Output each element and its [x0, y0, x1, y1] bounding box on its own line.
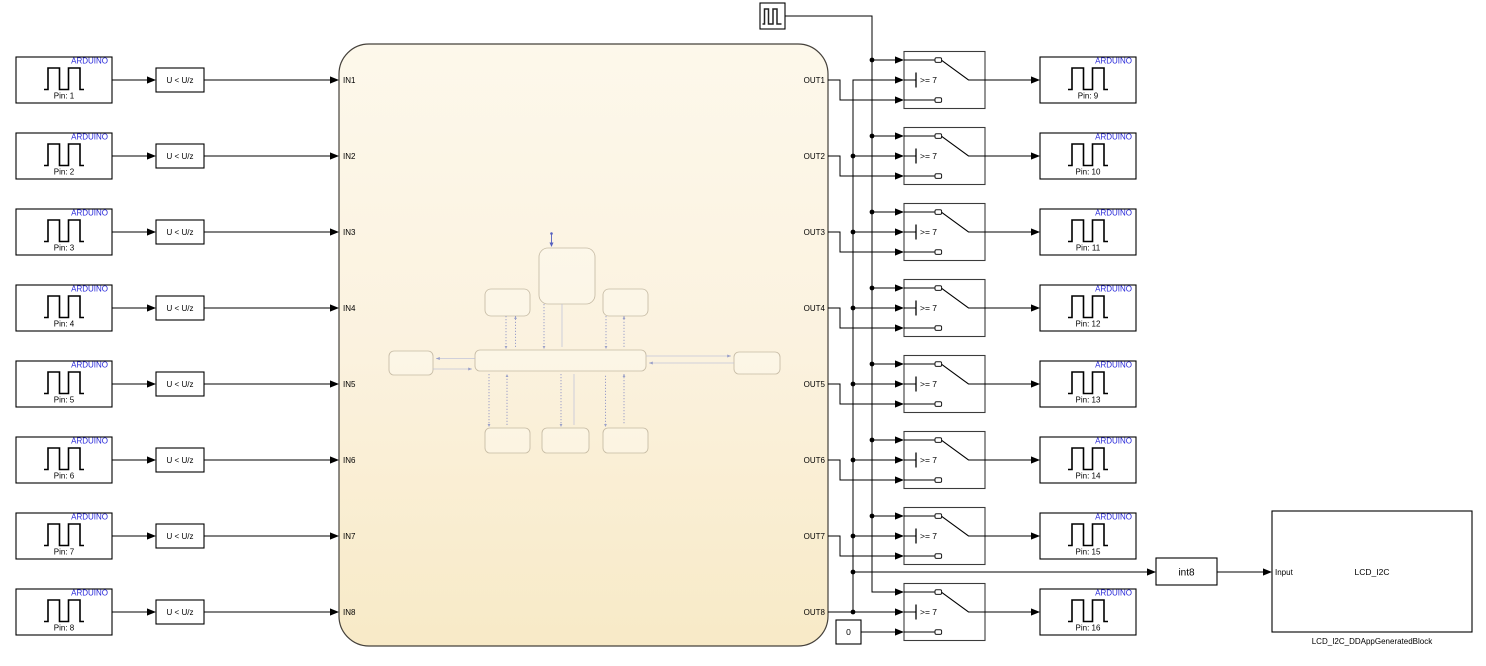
digital output block Pin 13 (ARDUINO sink): [1040, 361, 1136, 408]
svg-text:Pin: 13: Pin: 13: [1076, 396, 1101, 405]
svg-text:IN1: IN1: [343, 76, 356, 85]
svg-text:U < U/z: U < U/z: [167, 76, 194, 85]
wire Pin1 to compare block: [112, 76, 156, 83]
wire control trunk branch to switch 7 middle input: [853, 532, 904, 539]
svg-text:OUT2: OUT2: [804, 152, 826, 161]
svg-text:ARDUINO: ARDUINO: [1095, 361, 1132, 370]
wire subsystem OUT4 to switch 4 bottom input: [828, 308, 904, 332]
svg-text:>= 7: >= 7: [920, 531, 937, 541]
svg-text:OUT5: OUT5: [804, 380, 826, 389]
pulse generator block Pin 2 (ARDUINO source): [16, 133, 112, 180]
subsystem chart block: [339, 44, 828, 646]
switch block 2 (criteria >= 7): [904, 128, 985, 185]
subsystem input port label IN2: [343, 152, 356, 161]
svg-text:U < U/z: U < U/z: [167, 304, 194, 313]
wire control trunk branch to switch 5 middle input: [853, 380, 904, 387]
svg-text:U < U/z: U < U/z: [167, 456, 194, 465]
wire Pin7 to compare block: [112, 532, 156, 539]
svg-text:IN4: IN4: [343, 304, 356, 313]
wire switch 6 to Pin 14 block: [985, 456, 1040, 463]
svg-text:ARDUINO: ARDUINO: [1095, 133, 1132, 142]
wire pulse trunk branch to switch 5 top input: [872, 360, 904, 367]
constant block 0: [836, 620, 861, 644]
wire subsystem OUT1 to switch 1 bottom input: [828, 80, 904, 104]
svg-text:>= 7: >= 7: [920, 455, 937, 465]
svg-text:U < U/z: U < U/z: [167, 608, 194, 617]
switch block 6 (criteria >= 7): [904, 432, 985, 489]
svg-text:Pin: 15: Pin: 15: [1076, 548, 1101, 557]
wire pulse trunk branch to switch 2 top input: [872, 132, 904, 139]
compare-to-zero block U&lt;U/z row 8: [156, 600, 204, 624]
wire subsystem OUT7 to switch 7 bottom input: [828, 536, 904, 560]
svg-text:U < U/z: U < U/z: [167, 380, 194, 389]
wire switch 5 to Pin 13 block: [985, 380, 1040, 387]
subsystem input port label IN3: [343, 228, 356, 237]
svg-text:U < U/z: U < U/z: [167, 152, 194, 161]
wire pulse trunk branch to switch 4 top input: [872, 284, 904, 291]
svg-text:0: 0: [846, 627, 851, 637]
svg-text:int8: int8: [1178, 568, 1195, 579]
wire control trunk branch to switch 3 middle input: [853, 228, 904, 235]
svg-text:ARDUINO: ARDUINO: [71, 361, 108, 370]
svg-text:ARDUINO: ARDUINO: [71, 133, 108, 142]
svg-text:OUT3: OUT3: [804, 228, 826, 237]
compare-to-zero block U&lt;U/z row 5: [156, 372, 204, 396]
subsystem output port label OUT5: [804, 380, 826, 389]
junction pulse trunk row 3: [870, 210, 875, 215]
wire control trunk branch to switch 4 middle input: [853, 304, 904, 311]
switch block 1 (criteria >= 7): [904, 52, 985, 109]
svg-text:Pin: 3: Pin: 3: [54, 244, 75, 253]
junction control trunk row 2: [851, 154, 856, 159]
pulse generator block Pin 1 (ARDUINO source): [16, 57, 112, 104]
svg-text:ARDUINO: ARDUINO: [1095, 285, 1132, 294]
wire Pin3 to compare block: [112, 228, 156, 235]
digital output block Pin 11 (ARDUINO sink): [1040, 209, 1136, 256]
svg-text:Pin: 14: Pin: 14: [1076, 472, 1101, 481]
switch block 5 (criteria >= 7): [904, 356, 985, 413]
compare-to-zero block U&lt;U/z row 4: [156, 296, 204, 320]
digital output block Pin 9 (ARDUINO sink): [1040, 57, 1136, 104]
subsystem input port label IN6: [343, 456, 356, 465]
svg-text:ARDUINO: ARDUINO: [1095, 513, 1132, 522]
pulse generator block Pin 8 (ARDUINO source): [16, 589, 112, 636]
digital output block Pin 10 (ARDUINO sink): [1040, 133, 1136, 180]
data type conversion block int8: [1156, 558, 1217, 585]
svg-text:>= 7: >= 7: [920, 303, 937, 313]
subsystem input port label IN5: [343, 380, 356, 389]
LCD_I2C subsystem block: [1272, 511, 1472, 632]
wire subsystem OUT5 to switch 5 bottom input: [828, 384, 904, 408]
wire compare block to subsystem IN5: [204, 380, 339, 387]
pulse generator block Pin 6 (ARDUINO source): [16, 437, 112, 484]
wire control trunk branch to switch 6 middle input: [853, 456, 904, 463]
wire pulse generator trunk to switch top inputs: [785, 16, 904, 596]
svg-text:Pin: 7: Pin: 7: [54, 548, 75, 557]
svg-text:U < U/z: U < U/z: [167, 228, 194, 237]
wire subsystem OUT6 to switch 6 bottom input: [828, 460, 904, 484]
svg-text:ARDUINO: ARDUINO: [1095, 57, 1132, 66]
digital output block Pin 12 (ARDUINO sink): [1040, 285, 1136, 332]
subsystem output port label OUT6: [804, 456, 826, 465]
junction control trunk to int8 branch: [851, 570, 856, 575]
wire compare block to subsystem IN8: [204, 608, 339, 615]
pulse generator block Pin 3 (ARDUINO source): [16, 209, 112, 256]
wire switch 4 to Pin 12 block: [985, 304, 1040, 311]
svg-text:>= 7: >= 7: [920, 379, 937, 389]
svg-text:Pin: 11: Pin: 11: [1076, 244, 1101, 253]
chart watermark default transition: [550, 232, 554, 247]
junction pulse trunk row 1: [870, 58, 875, 63]
wire compare block to subsystem IN7: [204, 532, 339, 539]
wire compare block to subsystem IN4: [204, 304, 339, 311]
subsystem input port label IN4: [343, 304, 356, 313]
chart watermark transition lines: [489, 304, 624, 425]
wire compare block to subsystem IN1: [204, 76, 339, 83]
digital output block Pin 14 (ARDUINO sink): [1040, 437, 1136, 484]
svg-text:ARDUINO: ARDUINO: [71, 513, 108, 522]
subsystem output port label OUT1: [804, 76, 826, 85]
wire pulse trunk branch to switch 7 top input: [872, 512, 904, 519]
junction pulse trunk row 5: [870, 362, 875, 367]
wire subsystem OUT2 to switch 2 bottom input: [828, 156, 904, 180]
wire pulse trunk branch to switch 6 top input: [872, 436, 904, 443]
svg-text:>= 7: >= 7: [920, 75, 937, 85]
svg-text:Pin: 16: Pin: 16: [1076, 624, 1101, 633]
wire switch 2 to Pin 10 block: [985, 152, 1040, 159]
svg-text:IN6: IN6: [343, 456, 356, 465]
svg-text:>= 7: >= 7: [920, 607, 937, 617]
wire compare block to subsystem IN2: [204, 152, 339, 159]
svg-text:Pin: 2: Pin: 2: [54, 168, 75, 177]
junction control trunk row 3: [851, 230, 856, 235]
subsystem input port label IN8: [343, 608, 356, 617]
svg-text:IN5: IN5: [343, 380, 356, 389]
wire subsystem OUT3 to switch 3 bottom input: [828, 232, 904, 256]
junction control trunk at OUT8: [851, 610, 856, 615]
svg-text:ARDUINO: ARDUINO: [1095, 589, 1132, 598]
svg-text:IN3: IN3: [343, 228, 356, 237]
wire control trunk (OUT8 signal) up to switch 1 middle input: [853, 76, 904, 612]
digital output block Pin 16 (ARDUINO sink): [1040, 589, 1136, 636]
svg-text:LCD_I2C_DDAppGeneratedBlock: LCD_I2C_DDAppGeneratedBlock: [1312, 637, 1434, 646]
svg-text:Pin: 4: Pin: 4: [54, 320, 75, 329]
wire subsystem OUT8 to switch 8 middle input: [828, 608, 904, 615]
svg-text:OUT8: OUT8: [804, 608, 826, 617]
pulse generator block Pin 7 (ARDUINO source): [16, 513, 112, 560]
junction control trunk row 4: [851, 306, 856, 311]
junction pulse trunk row 7: [870, 514, 875, 519]
compare-to-zero block U&lt;U/z row 1: [156, 68, 204, 92]
wire constant 0 to switch 8 bottom input: [861, 628, 904, 635]
svg-text:ARDUINO: ARDUINO: [1095, 437, 1132, 446]
switch block 7 (criteria >= 7): [904, 508, 985, 565]
svg-text:Pin: 9: Pin: 9: [1078, 92, 1099, 101]
wire Pin5 to compare block: [112, 380, 156, 387]
svg-text:Pin: 8: Pin: 8: [54, 624, 75, 633]
compare-to-zero block U&lt;U/z row 2: [156, 144, 204, 168]
pulse generator block Pin 4 (ARDUINO source): [16, 285, 112, 332]
switch block 4 (criteria >= 7): [904, 280, 985, 337]
junction pulse trunk row 4: [870, 286, 875, 291]
svg-text:IN7: IN7: [343, 532, 356, 541]
wire Pin6 to compare block: [112, 456, 156, 463]
svg-text:ARDUINO: ARDUINO: [1095, 209, 1132, 218]
svg-text:>= 7: >= 7: [920, 227, 937, 237]
pulse generator block Pin 5 (ARDUINO source): [16, 361, 112, 408]
subsystem input port label IN7: [343, 532, 356, 541]
wire compare block to subsystem IN3: [204, 228, 339, 235]
svg-text:>= 7: >= 7: [920, 151, 937, 161]
svg-text:ARDUINO: ARDUINO: [71, 285, 108, 294]
subsystem output port label OUT3: [804, 228, 826, 237]
svg-text:ARDUINO: ARDUINO: [71, 589, 108, 598]
compare-to-zero block U&lt;U/z row 6: [156, 448, 204, 472]
wire pulse trunk branch to switch 1 top input: [872, 56, 904, 63]
wire int8 to LCD_I2C block: [1217, 568, 1272, 575]
switch block 3 (criteria >= 7): [904, 204, 985, 261]
wire switch 8 to Pin 16 block: [985, 608, 1040, 615]
wire switch 3 to Pin 11 block: [985, 228, 1040, 235]
junction control trunk row 5: [851, 382, 856, 387]
wire Pin2 to compare block: [112, 152, 156, 159]
svg-text:Pin: 6: Pin: 6: [54, 472, 75, 481]
wire control trunk branch to switch 2 middle input: [853, 152, 904, 159]
subsystem input port label IN1: [343, 76, 356, 85]
svg-text:ARDUINO: ARDUINO: [71, 57, 108, 66]
pulse generator block (top PWM source): [760, 3, 785, 29]
wire Pin8 to compare block: [112, 608, 156, 615]
wire control trunk to int8 converter: [853, 568, 1156, 575]
svg-text:OUT4: OUT4: [804, 304, 826, 313]
svg-text:OUT1: OUT1: [804, 76, 826, 85]
switch block 8 (criteria >= 7): [904, 584, 985, 641]
junction control trunk row 7: [851, 534, 856, 539]
junction pulse trunk row 2: [870, 134, 875, 139]
chart watermark state boxes: [389, 248, 780, 453]
svg-text:Pin: 1: Pin: 1: [54, 92, 75, 101]
junction pulse trunk row 6: [870, 438, 875, 443]
wire switch 1 to Pin 9 block: [985, 76, 1040, 83]
wire pulse trunk branch to switch 3 top input: [872, 208, 904, 215]
svg-text:ARDUINO: ARDUINO: [71, 209, 108, 218]
svg-text:LCD_I2C: LCD_I2C: [1355, 567, 1390, 577]
svg-text:Pin: 12: Pin: 12: [1076, 320, 1101, 329]
svg-text:IN8: IN8: [343, 608, 356, 617]
svg-text:Pin: 10: Pin: 10: [1076, 168, 1101, 177]
wire Pin4 to compare block: [112, 304, 156, 311]
digital output block Pin 15 (ARDUINO sink): [1040, 513, 1136, 560]
wire compare block to subsystem IN6: [204, 456, 339, 463]
svg-text:U < U/z: U < U/z: [167, 532, 194, 541]
svg-text:OUT7: OUT7: [804, 532, 826, 541]
subsystem output port label OUT7: [804, 532, 826, 541]
junction control trunk row 6: [851, 458, 856, 463]
svg-text:Pin: 5: Pin: 5: [54, 396, 75, 405]
svg-text:ARDUINO: ARDUINO: [71, 437, 108, 446]
svg-text:Input: Input: [1275, 568, 1294, 577]
subsystem output port label OUT4: [804, 304, 826, 313]
compare-to-zero block U&lt;U/z row 3: [156, 220, 204, 244]
compare-to-zero block U&lt;U/z row 7: [156, 524, 204, 548]
wire switch 7 to Pin 15 block: [985, 532, 1040, 539]
svg-text:OUT6: OUT6: [804, 456, 826, 465]
subsystem output port label OUT8: [804, 608, 826, 617]
svg-text:IN2: IN2: [343, 152, 356, 161]
label LCD_I2C_DDAppGeneratedBlock: [1312, 637, 1434, 646]
subsystem output port label OUT2: [804, 152, 826, 161]
